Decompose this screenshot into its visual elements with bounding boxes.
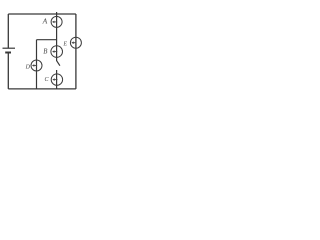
wire D branch vertical through lamp D — [36, 40, 38, 89]
svg-text:E: E — [62, 42, 67, 48]
wire horizontal connecting D branch to middle branch — [37, 39, 57, 41]
wire middle branch upper through lamps A and B — [56, 12, 58, 61]
battery cell long positive plate — [3, 47, 16, 49]
svg-text:C: C — [45, 77, 50, 83]
wire right border — [75, 14, 77, 89]
lamp B circle — [51, 46, 63, 58]
svg-text:B: B — [43, 48, 47, 55]
lamp C arrow glyph — [54, 79, 57, 81]
wire top border — [8, 13, 76, 15]
svg-text:A: A — [42, 16, 48, 25]
battery cell short negative plate — [5, 52, 11, 54]
lamp A circle — [51, 16, 62, 27]
lamp A arrow glyph — [54, 21, 57, 23]
wire middle branch lower through lamp C — [56, 70, 58, 89]
wire bottom border — [8, 88, 76, 90]
lamp D circle — [31, 60, 42, 71]
wire left border lower — [7, 53, 9, 89]
wire left border upper — [7, 14, 9, 48]
lamp D arrow glyph — [34, 65, 37, 67]
lamp C circle — [51, 74, 62, 85]
lamp B arrow glyph — [54, 51, 57, 53]
svg-text:D: D — [25, 65, 31, 71]
switch S open blade — [57, 61, 60, 66]
lamp E circle — [70, 37, 81, 48]
lamp E arrow glyph — [73, 42, 76, 44]
